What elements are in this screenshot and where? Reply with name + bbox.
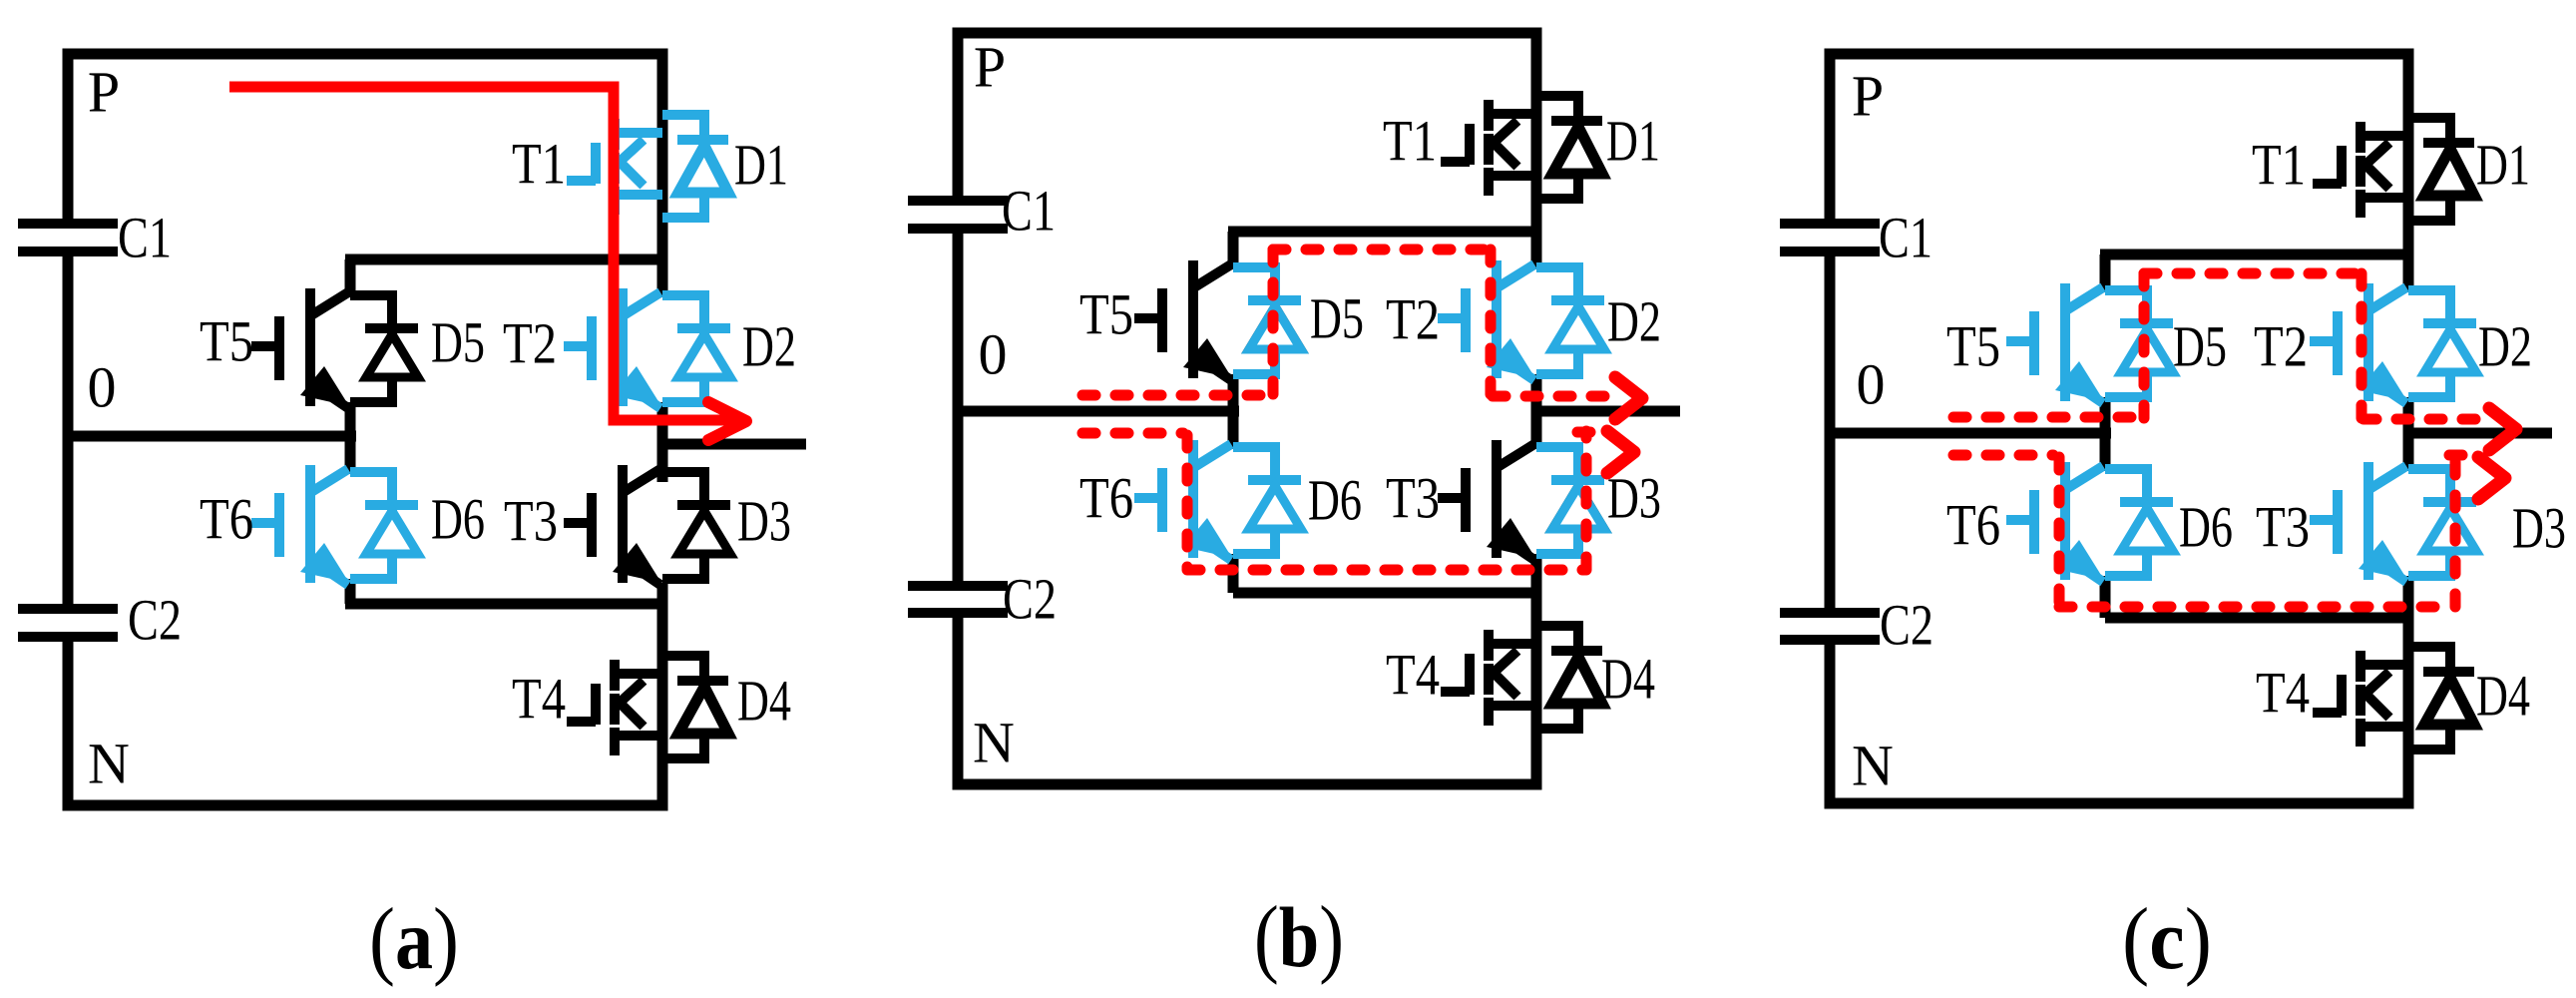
svg-text:D3: D3 bbox=[737, 489, 791, 554]
svg-text:T2: T2 bbox=[503, 311, 557, 376]
svg-text:0: 0 bbox=[1857, 352, 1886, 417]
svg-text:D2: D2 bbox=[742, 314, 796, 379]
svg-text:D4: D4 bbox=[1601, 647, 1655, 712]
svg-text:P: P bbox=[88, 60, 120, 125]
svg-text:T6: T6 bbox=[200, 487, 253, 552]
svg-text:D2: D2 bbox=[2478, 314, 2532, 379]
svg-text:D6: D6 bbox=[1308, 468, 1362, 533]
svg-text:D3: D3 bbox=[2512, 496, 2566, 561]
svg-text:T5: T5 bbox=[1946, 314, 2000, 379]
svg-text:T3: T3 bbox=[1386, 466, 1440, 531]
svg-text:D4: D4 bbox=[2476, 664, 2530, 729]
svg-text:T4: T4 bbox=[512, 667, 566, 732]
svg-text:D1: D1 bbox=[2476, 133, 2530, 198]
svg-text:D6: D6 bbox=[2179, 495, 2233, 560]
svg-text:D1: D1 bbox=[1606, 109, 1660, 174]
svg-text:D5: D5 bbox=[2173, 314, 2227, 379]
svg-text:(a): (a) bbox=[369, 891, 459, 988]
svg-text:N: N bbox=[1852, 734, 1894, 798]
svg-text:P: P bbox=[974, 35, 1006, 100]
svg-text:D6: D6 bbox=[431, 487, 485, 552]
svg-text:T1: T1 bbox=[512, 132, 566, 197]
svg-text:T4: T4 bbox=[2256, 661, 2310, 726]
svg-text:N: N bbox=[88, 732, 130, 796]
svg-text:(c): (c) bbox=[2122, 891, 2212, 988]
svg-text:D3: D3 bbox=[1607, 466, 1661, 531]
svg-text:T3: T3 bbox=[504, 489, 558, 554]
svg-text:T3: T3 bbox=[2256, 495, 2310, 560]
svg-text:(b): (b) bbox=[1254, 889, 1344, 986]
svg-text:D5: D5 bbox=[431, 310, 485, 375]
svg-text:N: N bbox=[973, 711, 1015, 775]
svg-text:T5: T5 bbox=[200, 309, 253, 374]
svg-text:D4: D4 bbox=[737, 669, 791, 734]
svg-text:D1: D1 bbox=[734, 133, 788, 198]
svg-text:D2: D2 bbox=[1607, 289, 1661, 354]
svg-text:C1: C1 bbox=[1002, 179, 1056, 244]
svg-text:C2: C2 bbox=[1003, 567, 1057, 632]
svg-text:T6: T6 bbox=[1946, 493, 2000, 558]
svg-text:C1: C1 bbox=[1879, 206, 1932, 270]
svg-text:T5: T5 bbox=[1079, 282, 1133, 347]
svg-text:T2: T2 bbox=[1386, 287, 1440, 352]
svg-text:C2: C2 bbox=[1880, 593, 1933, 658]
svg-text:P: P bbox=[1852, 64, 1884, 129]
svg-text:T6: T6 bbox=[1079, 466, 1133, 531]
svg-text:0: 0 bbox=[979, 322, 1008, 387]
svg-text:C1: C1 bbox=[118, 206, 172, 270]
svg-text:D5: D5 bbox=[1310, 286, 1364, 351]
svg-text:0: 0 bbox=[88, 355, 117, 420]
svg-text:C2: C2 bbox=[128, 588, 182, 653]
svg-text:T1: T1 bbox=[1383, 109, 1437, 174]
svg-text:T2: T2 bbox=[2254, 314, 2308, 379]
svg-text:T1: T1 bbox=[2252, 133, 2306, 198]
svg-text:T4: T4 bbox=[1386, 643, 1440, 708]
